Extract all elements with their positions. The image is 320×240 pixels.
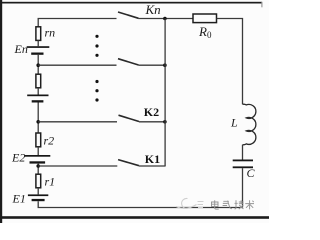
switch Kn [118,12,139,18]
wire: K2 row right to bus [139,121,165,123]
battery (unlabeled, row 2) [27,95,48,103]
node: left column K2 junction [36,120,40,124]
wire: K2 row left [38,121,117,123]
capacitor C [233,160,253,169]
svg-text:r2: r2 [44,134,55,148]
node: left column row2 junction [36,63,40,67]
wire: E1 down to bottom wire, bottom wire to right [38,201,242,207]
node: ellipsis dots upper [95,35,98,57]
resistor (unlabeled, row 2) [36,74,41,88]
inductor L [243,104,256,145]
wire: vertical bus [164,19,166,167]
resistor r1 [36,174,41,188]
wire: rn to En [37,40,39,46]
svg-text:En: En [14,42,28,56]
wire: row2 left (junction to switch left terminal) [38,64,116,66]
svg-text:E1: E1 [12,192,26,206]
node: bus K2 junction [163,120,167,124]
wire: battery row2 down to K2 node [37,103,39,134]
node: left column K1 junction [36,164,40,168]
switch K2 [119,115,140,121]
battery En [27,46,50,55]
node: bus top junction [163,17,167,21]
wire: E2 down to K1 node [37,164,39,175]
svg-text:E2: E2 [11,151,25,165]
node: ellipsis dots lower [95,80,98,102]
wire: C down to bottom wire [242,168,244,207]
wire: top row left (column top to switch Kn left terminal) [38,19,116,27]
wire: top row from Kn to node, to R0 [139,18,194,20]
wire: K1 row left [38,165,117,167]
battery E2 [24,155,50,164]
wire: row2 right to bus [139,64,165,66]
svg-text:L: L [230,116,238,130]
wire: K1 row right to bus corner [139,165,166,167]
node: bus row2 junction [163,63,167,67]
svg-text:K2: K2 [144,105,159,119]
wire: L to C [242,145,244,160]
border frame bottom [0,216,269,219]
watermark logo [176,198,204,208]
watermark text 电气技术 [212,200,255,209]
svg-text:C: C [247,166,256,180]
svg-text:r1: r1 [45,175,56,189]
switch K1 [118,160,139,166]
resistor R0 [193,14,217,23]
border frame left [0,0,2,223]
battery E1 [28,194,48,201]
wire: resistor to battery row2 [37,88,39,95]
switch (unlabeled, row 2) [118,59,139,65]
svg-text:K1: K1 [145,152,160,166]
wire: r1 to E1 [37,188,39,195]
border tick top-right [261,2,262,8]
svg-text:rn: rn [45,26,56,40]
resistor rn [36,27,41,41]
wire: r2 to E2 [37,147,39,155]
svg-text:Kn: Kn [145,2,161,17]
wire: En down to node [37,55,39,74]
border frame top [0,2,262,4]
wire: top row from R0 to right corner, down right side [217,19,243,105]
resistor r2 [36,133,41,147]
